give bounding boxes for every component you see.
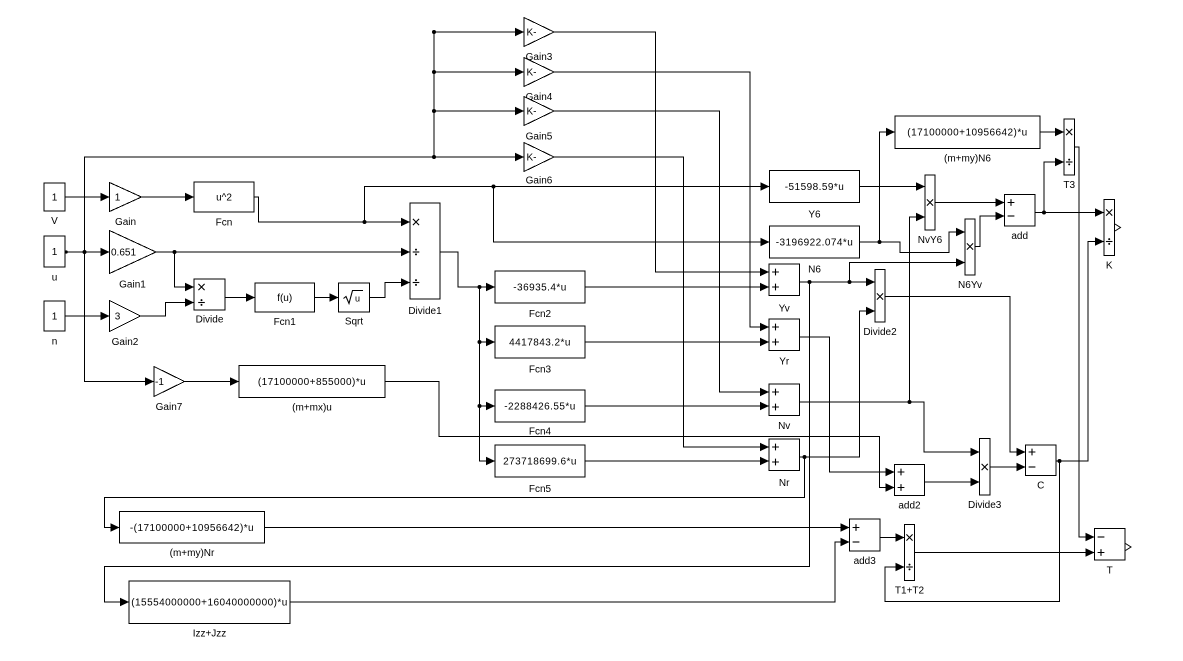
svg-text:N6Yv: N6Yv [958,280,982,291]
svg-text:-3196922.074*u: -3196922.074*u [776,238,853,249]
svg-text:u^2: u^2 [216,193,232,204]
svg-text:-2288426.55*u: -2288426.55*u [504,402,575,413]
svg-text:T3: T3 [1063,180,1075,191]
svg-text:Fcn2: Fcn2 [529,309,552,320]
svg-text:Gain7: Gain7 [156,402,183,413]
svg-text:C: C [1037,481,1044,492]
svg-text:u: u [355,294,360,304]
svg-text:Fcn5: Fcn5 [529,484,552,495]
svg-text:-36935.4*u: -36935.4*u [513,283,566,294]
svg-text:T1+T2: T1+T2 [895,586,925,597]
svg-text:Y6: Y6 [808,210,821,221]
svg-text:(m+mx)u: (m+mx)u [292,403,332,414]
svg-text:K-: K- [527,68,537,79]
svg-text:(m+my)N6: (m+my)N6 [944,154,991,165]
svg-text:1: 1 [52,312,58,323]
svg-text:Divide1: Divide1 [408,306,442,317]
svg-text:(15554000000+16040000000)*u: (15554000000+16040000000)*u [131,598,287,609]
svg-text:Nv: Nv [778,421,790,432]
svg-text:Gain: Gain [115,217,136,228]
svg-text:add: add [1011,231,1028,242]
svg-text:273718699.6*u: 273718699.6*u [503,457,577,468]
svg-text:-(17100000+10956642)*u: -(17100000+10956642)*u [130,523,254,534]
svg-text:1: 1 [52,247,58,258]
svg-text:Fcn3: Fcn3 [529,365,552,376]
svg-text:u: u [52,273,58,284]
svg-text:Fcn: Fcn [216,218,233,229]
svg-text:0.651: 0.651 [111,248,136,259]
svg-text:Nr: Nr [779,478,790,489]
svg-text:-1: -1 [155,377,164,388]
svg-text:Divide2: Divide2 [863,327,897,338]
svg-text:K-: K- [527,107,537,118]
svg-text:K-: K- [527,153,537,164]
svg-text:1: 1 [52,193,58,204]
svg-text:-51598.59*u: -51598.59*u [785,182,844,193]
svg-text:Gain1: Gain1 [119,280,146,291]
svg-text:Yv: Yv [779,304,790,315]
svg-text:(17100000+855000)*u: (17100000+855000)*u [258,377,366,388]
svg-text:(17100000+10956642)*u: (17100000+10956642)*u [907,128,1027,139]
svg-text:(m+my)Nr: (m+my)Nr [170,548,215,559]
svg-text:4417843.2*u: 4417843.2*u [509,338,571,349]
svg-text:Fcn4: Fcn4 [529,427,552,438]
svg-text:3: 3 [115,312,121,323]
svg-text:Divide: Divide [196,315,224,326]
svg-text:K: K [1106,261,1113,272]
svg-text:Gain6: Gain6 [526,176,553,187]
svg-text:Divide3: Divide3 [968,500,1002,511]
svg-text:K-: K- [527,28,537,39]
svg-text:Gain5: Gain5 [526,132,553,143]
svg-text:add2: add2 [898,501,921,512]
svg-text:T: T [1107,566,1113,577]
svg-text:Fcn1: Fcn1 [274,317,297,328]
svg-text:Sqrt: Sqrt [345,317,364,328]
svg-text:Gain2: Gain2 [112,337,139,348]
svg-text:1: 1 [115,193,121,204]
svg-text:NvY6: NvY6 [918,235,943,246]
svg-text:N6: N6 [808,265,821,276]
svg-text:n: n [52,337,58,348]
svg-text:f(u): f(u) [277,293,292,304]
svg-text:add3: add3 [854,556,877,567]
svg-text:Yr: Yr [779,357,790,368]
svg-text:V: V [51,216,58,227]
svg-text:Izz+Jzz: Izz+Jzz [193,629,227,640]
